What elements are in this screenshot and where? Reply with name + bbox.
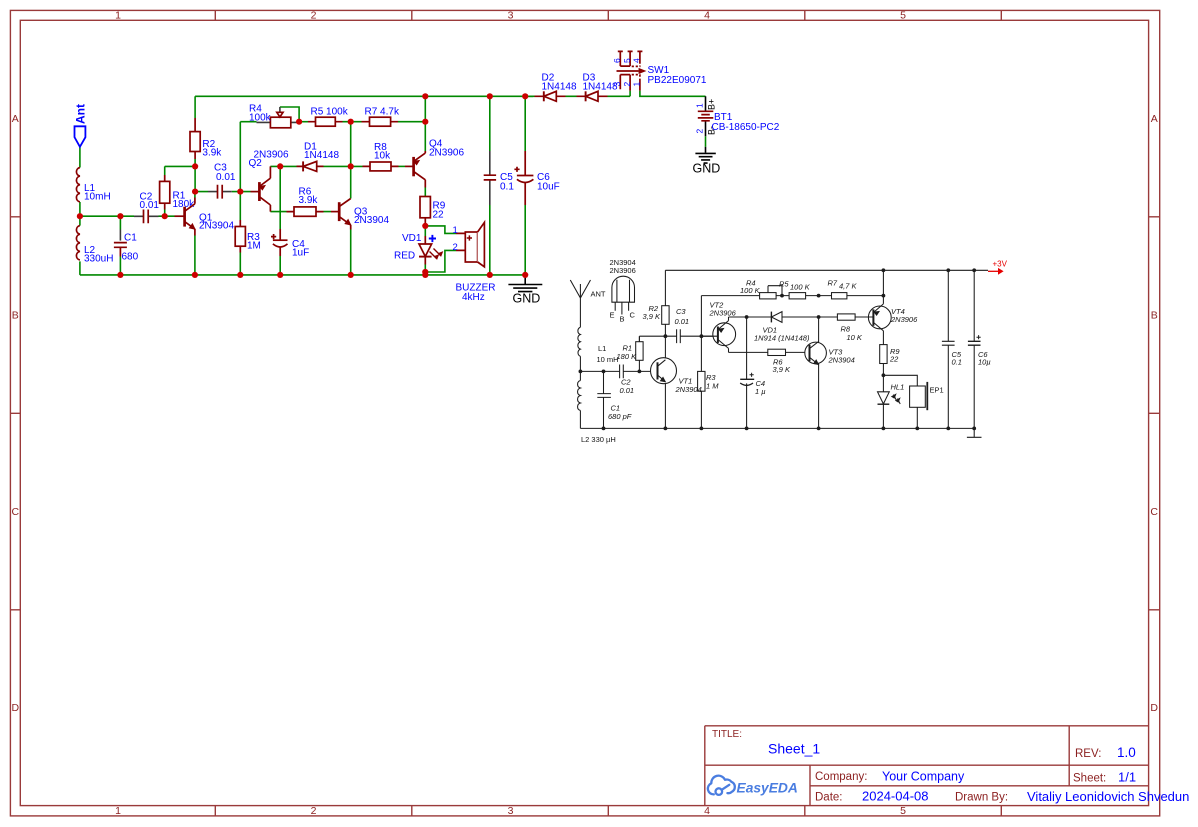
svg-text:10 mH: 10 mH: [597, 355, 619, 364]
svg-text:Company:: Company:: [815, 771, 867, 783]
wire L1 bottom junction: [79, 202, 81, 226]
diode D2: [535, 91, 566, 101]
column ticks bottom: [215, 806, 1001, 816]
svg-text:2: 2: [453, 242, 458, 253]
svg-text:C1: C1: [124, 233, 137, 244]
svg-text:GND: GND: [513, 292, 541, 306]
svg-text:1/1: 1/1: [1118, 770, 1136, 785]
wire bottom ground rail: [80, 274, 525, 276]
svg-text:4kHz: 4kHz: [462, 292, 485, 303]
svg-text:1: 1: [115, 805, 121, 817]
resistor R3: [235, 220, 245, 253]
wire C5 branch: [489, 96, 491, 275]
svg-text:0.01: 0.01: [216, 172, 236, 183]
svg-text:1: 1: [632, 82, 642, 87]
wire R4R5 node: [299, 121, 308, 123]
svg-text:1: 1: [115, 10, 121, 22]
svg-text:22: 22: [433, 210, 445, 221]
wire VT3 collector stub: [818, 317, 820, 343]
wire L2 bottom: [79, 261, 81, 275]
capacitor C2 sch2: [620, 365, 624, 379]
svg-text:C: C: [1150, 506, 1158, 518]
resistor R6: [287, 207, 324, 216]
wire buzzer pin2 net: [425, 250, 456, 272]
svg-text:C: C: [630, 311, 636, 320]
wire Q3 emitter to rail: [350, 230, 352, 275]
svg-text:2N3906: 2N3906: [429, 148, 464, 159]
column numbers bottom: [115, 805, 906, 817]
svg-text:2N3904: 2N3904: [675, 385, 702, 394]
svg-text:+3V: +3V: [993, 260, 1008, 269]
wire bottom rail sch2: [580, 427, 974, 429]
resistor R6 sch2: [768, 349, 786, 355]
svg-text:5: 5: [900, 805, 906, 817]
svg-text:Ant: Ant: [74, 104, 88, 124]
svg-text:3,9 K: 3,9 K: [773, 365, 792, 374]
wire R2 stubs: [664, 270, 666, 336]
svg-text:R5: R5: [779, 280, 789, 289]
svg-text:3: 3: [612, 82, 622, 87]
svg-text:2N3904: 2N3904: [828, 356, 855, 365]
wire EP1 branch: [883, 375, 917, 428]
wire L1 to L2: [579, 356, 581, 380]
svg-text:3: 3: [508, 805, 514, 817]
transistor Q4: [405, 151, 425, 188]
svg-text:R7 4.7k: R7 4.7k: [365, 107, 400, 118]
resistor R3 sch2: [698, 371, 705, 391]
svg-text:B: B: [620, 315, 625, 324]
svg-text:Your Company: Your Company: [882, 770, 965, 784]
svg-text:EP1: EP1: [930, 386, 944, 395]
svg-text:Drawn By:: Drawn By:: [955, 792, 1008, 804]
wire R9 to VD1: [424, 224, 426, 237]
wire Q4 collector to R9: [424, 188, 426, 197]
svg-text:1M: 1M: [247, 241, 261, 252]
wire rail2 sch2: [701, 270, 883, 336]
resistor R5 sch2: [789, 293, 806, 299]
capacitor C6 sch2: [968, 335, 981, 345]
wire R9 to HL1: [882, 364, 884, 392]
wire VT1 collector: [664, 336, 666, 358]
wire ant stub: [79, 147, 81, 168]
svg-text:2N3906: 2N3906: [610, 266, 636, 275]
capacitor C4 sch2: [740, 373, 754, 386]
svg-text:100k: 100k: [249, 113, 272, 124]
svg-text:D: D: [1150, 702, 1158, 714]
svg-text:680 pF: 680 pF: [608, 412, 632, 421]
wire C6 branch: [524, 96, 526, 275]
svg-text:A: A: [1151, 113, 1158, 125]
svg-text:REV:: REV:: [1075, 748, 1101, 760]
row letters left: [12, 113, 20, 714]
svg-text:680: 680: [122, 252, 139, 263]
resistor R1: [160, 175, 170, 210]
wire C1 branch: [119, 216, 121, 275]
junction dots sch1: [77, 93, 529, 278]
svg-text:0.1: 0.1: [500, 182, 514, 193]
svg-text:10 K: 10 K: [847, 333, 863, 342]
svg-text:1 M: 1 M: [706, 382, 719, 391]
svg-text:A: A: [12, 113, 19, 125]
row ticks right: [1149, 217, 1160, 610]
resistor R8 sch2: [837, 314, 855, 320]
transistor Q2: [251, 166, 271, 211]
EasyEDA logo cloud: [708, 776, 735, 795]
wire C5 branch sch2: [947, 270, 949, 428]
svg-text:R7: R7: [828, 279, 838, 288]
resistor R9 sch2: [880, 345, 887, 364]
svg-text:0.01: 0.01: [620, 386, 635, 395]
capacitor C1 sch2: [597, 394, 611, 398]
capacitor C4: [271, 229, 288, 256]
wire R3 branch sch2: [700, 336, 702, 428]
wire R5R7 node: [343, 122, 362, 167]
wire C3 line sch2: [639, 336, 718, 342]
svg-text:1N4148: 1N4148: [304, 150, 339, 161]
wire HL1 to rail: [882, 405, 884, 429]
svg-text:L2 330 µH: L2 330 µH: [581, 435, 616, 444]
switch SW1: [617, 51, 646, 90]
svg-text:10uF: 10uF: [537, 182, 560, 193]
wire buzzer pin1 net: [425, 226, 456, 234]
capacitor C1: [114, 230, 127, 257]
svg-text:R5 100k: R5 100k: [311, 107, 349, 118]
svg-text:2: 2: [622, 82, 632, 87]
svg-text:ANT: ANT: [591, 290, 606, 299]
wire base net Q1: [80, 215, 175, 217]
svg-text:330uH: 330uH: [84, 254, 113, 265]
svg-text:0.01: 0.01: [675, 317, 690, 326]
capacitor C6: [514, 151, 533, 205]
svg-text:TITLE:: TITLE:: [712, 729, 742, 740]
resistor R5: [308, 117, 343, 126]
wire L2 to rail: [579, 411, 581, 429]
transistor Q1: [175, 198, 195, 236]
power +3V arrow: [988, 268, 1004, 275]
antenna port Ant: [75, 126, 86, 147]
wire R7 right node: [398, 96, 425, 151]
svg-text:2N3904: 2N3904: [199, 221, 234, 232]
svg-text:Vitaliy Leonidovich Shvedun: Vitaliy Leonidovich Shvedun: [1027, 789, 1189, 804]
svg-text:3.9k: 3.9k: [202, 148, 222, 159]
svg-text:3.9k: 3.9k: [299, 195, 319, 206]
svg-text:100 K: 100 K: [790, 283, 811, 292]
svg-text:6: 6: [612, 58, 622, 63]
transistor VT4 sch2: [855, 304, 891, 331]
svg-text:HL1: HL1: [891, 383, 905, 392]
diode D1: [297, 161, 324, 171]
svg-text:22: 22: [889, 355, 899, 364]
wire C6 branch sch2: [973, 270, 975, 428]
svg-text:PB22E09071: PB22E09071: [648, 75, 707, 86]
svg-text:1: 1: [695, 103, 705, 108]
resistor R7 sch2: [832, 293, 847, 299]
diode D3: [577, 91, 608, 101]
ground GND left: [508, 275, 542, 292]
wire R4 left to base node: [240, 122, 256, 192]
resistor R2 sch2: [662, 306, 669, 325]
wire C4 branch sch2: [746, 317, 748, 428]
svg-text:Sheet_1: Sheet_1: [768, 741, 820, 757]
capacitor C2: [134, 210, 159, 224]
svg-text:0.1: 0.1: [952, 358, 962, 367]
svg-text:3,9 K: 3,9 K: [643, 312, 662, 321]
wire antenna feed: [579, 298, 581, 327]
resistor R1 sch2: [636, 342, 643, 361]
svg-text:2: 2: [311, 10, 317, 22]
svg-text:C: C: [12, 506, 20, 518]
wire D2 D3 net: [525, 91, 630, 97]
svg-text:4: 4: [704, 10, 710, 22]
wire top rail sch2: [665, 269, 988, 271]
wire C4 branch: [279, 166, 281, 275]
svg-text:B: B: [1151, 310, 1158, 322]
svg-text:3: 3: [508, 10, 514, 22]
svg-text:2N3906: 2N3906: [254, 150, 289, 161]
wire R6 line sch2: [729, 348, 810, 352]
SCHEMATIC2: [570, 258, 1007, 444]
svg-text:E: E: [610, 311, 615, 320]
SCHEMATIC1: [74, 51, 780, 305]
svg-text:4,7 K: 4,7 K: [839, 282, 858, 291]
wire R8 to Q4 base: [399, 165, 406, 167]
svg-text:100 K: 100 K: [740, 286, 761, 295]
svg-text:D: D: [12, 702, 20, 714]
resistor R9: [420, 197, 430, 224]
svg-text:L1: L1: [598, 344, 606, 353]
svg-text:1N914 (1N4148): 1N914 (1N4148): [754, 334, 810, 343]
wire R3 branch: [239, 192, 241, 275]
resistor R7: [362, 117, 399, 126]
row ticks left: [10, 217, 20, 610]
wire VT1 emitter to rail: [664, 384, 666, 429]
svg-text:1uF: 1uF: [292, 248, 309, 259]
svg-text:10k: 10k: [374, 151, 391, 162]
battery BT1: [698, 96, 714, 153]
TO-92 package drawing: [612, 276, 635, 314]
wire VD1 line sch2: [729, 317, 874, 321]
wire R6 net: [270, 211, 331, 213]
svg-text:2N3904: 2N3904: [354, 215, 389, 226]
transistor VT2 sch2: [701, 321, 735, 349]
wire R2 top: [194, 96, 196, 118]
svg-text:GND: GND: [693, 162, 721, 176]
svg-text:2: 2: [311, 805, 317, 817]
svg-text:Sheet:: Sheet:: [1073, 773, 1106, 785]
TITLEBLOCK: [705, 726, 1190, 806]
title block grid: [705, 726, 1149, 806]
svg-text:10mH: 10mH: [84, 192, 111, 203]
column ticks top: [215, 10, 1001, 20]
plus mark VD1: [429, 235, 436, 242]
wire Q1 emitter to rail: [194, 236, 196, 275]
junction dots sch2: [579, 268, 977, 430]
wire C1 branch sch2: [603, 371, 605, 428]
svg-text:10µ: 10µ: [978, 358, 991, 367]
wire VT3 emitter to rail: [818, 363, 820, 429]
antenna symbol sch2: [570, 280, 590, 298]
wire base line VT1: [580, 370, 657, 372]
wire R1 bottom: [164, 210, 166, 217]
ground GND right: [695, 153, 715, 163]
svg-text:4: 4: [704, 805, 710, 817]
svg-text:4: 4: [632, 58, 642, 63]
svg-text:1 µ: 1 µ: [755, 387, 766, 396]
wire Q1 collector stub: [194, 192, 196, 198]
wire VD1 to rail: [424, 265, 426, 275]
inductor L1: [76, 168, 79, 202]
inductor L1 sch2: [578, 327, 581, 356]
capacitor C3 sch2: [677, 329, 681, 343]
resistor R2: [190, 118, 200, 159]
LED VD1: [419, 236, 443, 265]
wire SW1 to battery: [640, 91, 706, 97]
wire R1 stubs: [638, 336, 640, 371]
transistor VT1 sch2: [651, 358, 677, 384]
svg-text:2: 2: [695, 129, 705, 134]
potentiometer R4: [257, 107, 300, 128]
wire Q3 collector stub: [350, 166, 352, 198]
row letters right: [1150, 113, 1158, 714]
buzzer LS1: [456, 222, 484, 266]
wire VT4 collector to R9: [882, 331, 884, 345]
capacitor C5 sch2: [942, 341, 955, 345]
wire R1/R2 node to C3 node: [165, 159, 195, 192]
svg-text:C3: C3: [676, 307, 686, 316]
wire D1 net: [270, 165, 362, 167]
transistor VT3 sch2: [805, 342, 827, 365]
svg-text:1N4148: 1N4148: [542, 82, 577, 93]
svg-text:Date:: Date:: [815, 792, 843, 804]
svg-text:EasyEDA: EasyEDA: [737, 781, 798, 796]
column numbers top: [115, 10, 906, 22]
capacitor C3: [208, 185, 232, 199]
transistor Q3: [331, 199, 351, 230]
svg-text:5: 5: [900, 10, 906, 22]
svg-text:2N3906: 2N3906: [709, 309, 737, 318]
svg-text:CB-18650-PC2: CB-18650-PC2: [712, 122, 780, 133]
svg-text:VD1: VD1: [402, 233, 422, 244]
potentiometer R4 sch2: [760, 286, 782, 299]
resistor R8: [363, 162, 399, 171]
svg-text:1: 1: [453, 225, 458, 236]
wire R4 wiper loop: [280, 107, 299, 122]
svg-text:0.01: 0.01: [140, 200, 160, 211]
svg-text:B: B: [12, 310, 19, 322]
capacitor C5: [484, 151, 496, 205]
svg-text:180 K: 180 K: [617, 352, 638, 361]
svg-text:5: 5: [622, 58, 632, 63]
wire battery bottom: [705, 136, 707, 147]
ground sch2: [967, 428, 982, 437]
inductor L2: [76, 226, 79, 260]
wire C3 net: [195, 191, 250, 193]
inductor L2 sch2: [578, 381, 581, 411]
svg-text:RED: RED: [394, 251, 415, 262]
earphone EP1 sch2: [910, 382, 928, 410]
diode VD1 sch2: [771, 312, 782, 323]
wire top power rail: [195, 95, 533, 97]
svg-text:2024-04-08: 2024-04-08: [862, 789, 929, 804]
LED HL1 sch2: [878, 392, 901, 404]
svg-text:B+: B+: [707, 99, 717, 110]
svg-text:1.0: 1.0: [1117, 745, 1136, 760]
svg-text:2N3906: 2N3906: [890, 315, 918, 324]
